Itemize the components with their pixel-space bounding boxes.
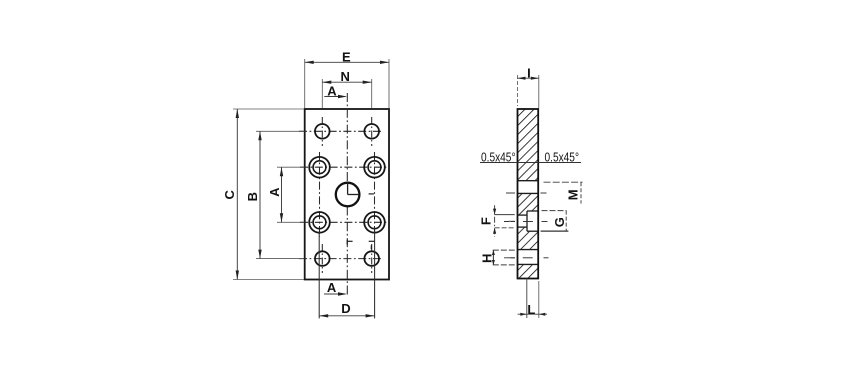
svg-text:A: A [327, 83, 337, 98]
dim B line [259, 131, 261, 258]
node col line bottom-left hole [321, 244, 323, 273]
svg-text:D: D [341, 301, 350, 316]
dim F top ext [495, 214, 515, 216]
dim N extension lines [321, 79, 323, 108]
H row dash [509, 257, 515, 259]
dim D extension lines [318, 232, 320, 318]
notch divider vertical [526, 211, 528, 231]
hole bottom-left [315, 251, 330, 266]
hatched block 3 stepped [518, 193, 539, 215]
node mid-left column line [319, 152, 321, 237]
dim E line [305, 61, 389, 63]
dim G top ext [542, 210, 567, 212]
svg-text:0.5x45°: 0.5x45° [481, 150, 516, 165]
side row dash H row [504, 257, 515, 259]
svg-text:F: F [478, 217, 493, 225]
dim M extension line [544, 181, 583, 183]
dim E extension lines [304, 59, 306, 108]
dim H vertical [492, 250, 494, 265]
dim A left extension lines [277, 166, 304, 168]
section outline [518, 109, 539, 279]
dim D line [319, 315, 374, 317]
svg-text:0.5x45°: 0.5x45° [545, 150, 580, 165]
dim C extension lines [233, 108, 304, 110]
svg-text:L: L [527, 302, 535, 317]
counterbored hole row3-right [364, 212, 385, 233]
F row dash [509, 220, 515, 222]
center pilot circle [336, 183, 360, 207]
side row dash center circle [506, 192, 515, 194]
notch left top edge [518, 214, 528, 216]
dim F vertical center line [494, 205, 496, 236]
node vertical center line [346, 93, 348, 183]
dim L line [518, 313, 548, 315]
dim M vertical line [580, 182, 582, 203]
hole top-right [364, 124, 379, 139]
notch right bottom edge [527, 230, 538, 232]
tick near right column at center row [369, 193, 374, 195]
dim L extension lines [526, 279, 528, 319]
node col line bottom-right hole [371, 244, 373, 273]
hole top-left [315, 124, 330, 139]
svg-text:A: A [327, 280, 337, 295]
svg-text:A: A [267, 187, 282, 197]
counterbored hole row2-right [364, 157, 385, 178]
hatched block 2 [518, 163, 539, 181]
dim A bottom line [324, 293, 345, 295]
node col line top-left hole [321, 117, 323, 146]
dim F arrows [493, 209, 496, 215]
dim C line [236, 109, 238, 280]
section internal line 193.4 [518, 192, 539, 194]
node row1 center line [299, 130, 383, 132]
dim A left line [281, 167, 283, 222]
svg-text:H: H [480, 254, 495, 263]
dim A top line [324, 96, 345, 98]
hatched block bottom [518, 264, 539, 278]
node row3 center line [300, 221, 389, 223]
hatched block top [518, 109, 539, 163]
side row dash F/G row [504, 221, 515, 223]
hatched block 4 stepped [518, 227, 539, 250]
section internal line 264.4 [518, 263, 539, 265]
dim G vertical [565, 211, 567, 232]
section internal line 249.6 [518, 249, 539, 251]
svg-text:E: E [342, 49, 351, 64]
notch left bottom edge [518, 226, 528, 228]
center circle vertical hand [347, 183, 349, 195]
svg-text:B: B [245, 192, 260, 201]
svg-text:M: M [566, 189, 581, 200]
svg-text:C: C [222, 189, 237, 199]
dim G bottom ext [541, 230, 569, 232]
dim N line [322, 81, 371, 83]
dim B extension lines [256, 130, 304, 132]
plate outline [305, 109, 389, 280]
dim H top ext [493, 249, 515, 251]
dim F bottom ext [495, 227, 515, 229]
svg-text:N: N [341, 69, 350, 84]
node col line top-right hole [371, 117, 373, 146]
node row2 center line [300, 166, 389, 168]
chamfer leader line [480, 162, 581, 164]
dim H bottom ext [493, 264, 515, 266]
svg-text:G: G [552, 217, 567, 227]
dim I extension lines [517, 75, 519, 106]
node row4 center line [299, 258, 383, 260]
counterbored hole row3-left [309, 212, 330, 233]
center circle horizontal hand [348, 194, 360, 196]
notch right top edge [527, 210, 538, 212]
small mark right below [369, 240, 375, 242]
small mark left of center below [346, 240, 348, 245]
section internal line 180.7 [518, 180, 539, 182]
dim I line [518, 77, 539, 79]
hole bottom-right [364, 251, 379, 266]
svg-text:I: I [527, 65, 531, 80]
node mid-right column line [374, 152, 376, 237]
counterbored hole row2-left [309, 157, 330, 178]
